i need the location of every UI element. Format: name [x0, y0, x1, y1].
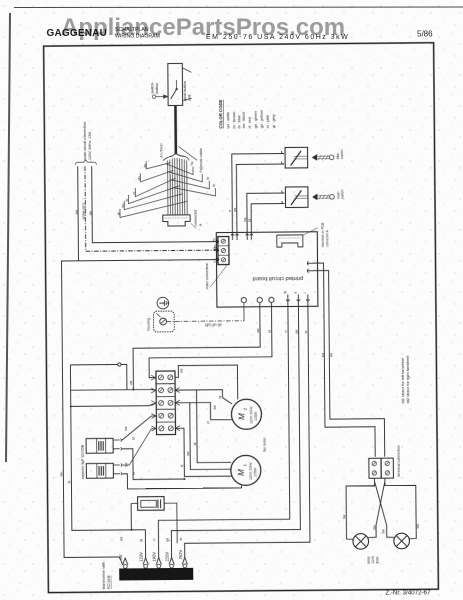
- svg-text:main circuit connection: main circuit connection: [83, 122, 87, 161]
- svg-text:bl: bl: [247, 219, 251, 222]
- svg-text:rt : red: rt : red: [248, 117, 252, 128]
- scanned page edge top line: [14, 6, 463, 9]
- branch row2 to M1 upper: [197, 390, 232, 463]
- wire ws to lamp block: [313, 270, 385, 457]
- svg-text:main: main: [336, 192, 340, 200]
- main connection terminal block on PCB: [218, 237, 229, 265]
- svg-text:M2 Motor for right fanwheel: M2 Motor for right fanwheel: [405, 355, 410, 403]
- wire bl: PCB to strip row2: [149, 302, 273, 377]
- svg-text:sw: sw: [213, 405, 217, 410]
- cable flare brace: [163, 154, 189, 161]
- leader to mounted-on-PCB label: [303, 228, 318, 236]
- svg-text:unit: unit: [188, 94, 192, 101]
- ground wire dash-dot to PCB: [167, 320, 244, 323]
- PCB right hook terminals: [307, 261, 312, 265]
- special cable thick line: [174, 105, 177, 153]
- row1 to M2 top: [175, 365, 238, 400]
- lamp side wire right: [385, 482, 416, 539]
- svg-text:120V, 60Hz: 120V, 60Hz: [249, 462, 253, 480]
- svg-text:ge: ge: [295, 330, 299, 334]
- row3 to M2 lower: [175, 402, 232, 420]
- push button unit box: [168, 63, 183, 105]
- svg-text:switch: switch: [341, 189, 345, 199]
- svg-text:br : brown: br : brown: [232, 112, 236, 129]
- svg-text:bl: bl: [193, 442, 197, 445]
- wire br: PCB to transformer 262V: [183, 301, 311, 558]
- svg-text:sw: sw: [124, 426, 128, 431]
- wire rt: PCB to transformer 190V: [156, 301, 290, 558]
- svg-text:L1: L1: [211, 258, 216, 262]
- RC left vertical join: [131, 503, 145, 558]
- wire sw to lamp block: [313, 263, 376, 458]
- svg-text:main connection: main connection: [205, 263, 209, 289]
- motor M1: [231, 455, 261, 485]
- svg-text:ws : white: ws : white: [226, 112, 230, 129]
- branch row3 to M1 mid: [190, 402, 231, 469]
- svg-text:switch-: switch-: [150, 81, 154, 94]
- svg-text:0V: 0V: [118, 554, 123, 559]
- svg-text:RC-Unit: RC-Unit: [107, 575, 111, 589]
- wires PCB to filter switch: [232, 154, 285, 235]
- svg-text:mounted on PCB: mounted on PCB: [321, 223, 325, 247]
- svg-text:transformer with: transformer with: [102, 562, 106, 589]
- motor M2: [231, 399, 261, 429]
- mains wire sw (L1): [61, 166, 123, 565]
- svg-text:ws: ws: [179, 368, 183, 373]
- svg-text:capacitor 8μF 320VDB: capacitor 8μF 320VDB: [81, 444, 85, 479]
- svg-text:gn : green: gn : green: [254, 111, 258, 128]
- lamp terminal block: [369, 458, 381, 478]
- main connection leader: [210, 265, 228, 288]
- svg-text:filter: filter: [336, 152, 340, 159]
- svg-text:bl: bl: [67, 481, 71, 484]
- push button unit callout lines: [183, 68, 192, 101]
- svg-text:III: III: [283, 291, 287, 294]
- mains wire gn/ge (ground, dash-dot): [85, 165, 218, 251]
- svg-text:105W: 105W: [254, 411, 258, 421]
- switch-button actuator circle and arrow: [152, 95, 155, 98]
- svg-text:ws: ws: [372, 525, 376, 530]
- special cable leader line: [179, 146, 198, 160]
- svg-text:sw: sw: [321, 352, 325, 357]
- PCB top hook terminals: [231, 234, 234, 240]
- row2 to M2 upper: [175, 390, 232, 405]
- wire ws: PCB to strip row1: [133, 303, 261, 390]
- svg-text:ge: ge: [165, 538, 169, 542]
- svg-text:rt: rt: [284, 330, 288, 332]
- svg-text:ws: ws: [416, 524, 420, 529]
- strip screws: [158, 375, 163, 380]
- switch contact inside push button unit: [175, 80, 177, 88]
- mains wire ws (N): [92, 165, 218, 243]
- svg-text:sw: sw: [342, 514, 346, 519]
- connector A (cable end): [163, 215, 190, 226]
- svg-text:N: N: [211, 238, 216, 241]
- svg-text:connector A: connector A: [325, 229, 329, 247]
- svg-text:sw: sw: [243, 217, 247, 222]
- main switch: [285, 187, 308, 208]
- svg-text:sw: sw: [186, 451, 190, 456]
- wire ge: PCB to transformer 220V: [169, 301, 300, 558]
- svg-text:(gn) gn-ge: (gn) gn-ge: [205, 323, 222, 327]
- lamp 2: [394, 533, 410, 549]
- svg-text:rt: rt: [228, 210, 232, 212]
- junction dots: [132, 389, 134, 391]
- wire fan diagonal bl2 (right): [173, 187, 215, 196]
- svg-text:sw: sw: [124, 462, 128, 467]
- svg-text:switch: switch: [340, 149, 344, 159]
- PCB bottom circle terminals: [241, 297, 246, 302]
- svg-text:AppliancePartsPros.com: AppliancePartsPros.com: [61, 14, 345, 41]
- svg-text:lamp: lamp: [367, 556, 371, 564]
- RC unit box: [138, 497, 165, 511]
- transformer terminal V-crimps and stubs: [123, 558, 128, 565]
- svg-text:ge : yellow: ge : yellow: [260, 110, 264, 128]
- svg-text:105W: 105W: [253, 467, 257, 477]
- printed circuit board outline: [216, 232, 318, 307]
- wire fan diagonal ws: [124, 194, 183, 210]
- svg-text:120V: 120V: [371, 555, 375, 564]
- svg-text:sw: sw: [381, 529, 385, 534]
- wire fan diagonal rs: [135, 178, 176, 197]
- svg-text:bl: bl: [268, 330, 272, 333]
- svg-text:push button: push button: [183, 81, 187, 101]
- wire fan diagonal rt (right): [168, 171, 203, 182]
- svg-text:ws: ws: [256, 328, 260, 332]
- strip right exit arrows: [175, 388, 180, 431]
- svg-text:220V: 220V: [165, 552, 170, 562]
- svg-text:gr : grey: gr : grey: [272, 114, 276, 128]
- lamp cross wires: [374, 478, 394, 537]
- housing box: [153, 311, 174, 332]
- cap C1 wires: [122, 416, 156, 440]
- capacitor C1: [86, 438, 113, 453]
- lamp 1: [353, 534, 369, 550]
- svg-text:120V, 60Hz, 15A: 120V, 60Hz, 15A: [88, 131, 92, 160]
- svg-text:special cable: special cable: [199, 148, 203, 170]
- svg-text:M: M: [237, 413, 246, 420]
- svg-text:bl: bl: [218, 396, 222, 399]
- svg-text:ws: ws: [329, 353, 333, 357]
- svg-text:40W: 40W: [376, 556, 380, 564]
- wire fan diagonal bl: [128, 186, 179, 204]
- svg-text:rs : pink: rs : pink: [266, 115, 270, 128]
- svg-text:fan motor: fan motor: [263, 436, 267, 451]
- svg-text:rt: rt: [152, 539, 156, 541]
- terminal strip outline: [156, 371, 176, 435]
- junction dots at main connection: [216, 241, 218, 243]
- svg-text:ws: ws: [129, 380, 133, 384]
- svg-text:ws: ws: [59, 472, 63, 476]
- cap C2 wires: [122, 429, 156, 465]
- svg-text:rt: rt: [206, 421, 210, 423]
- lamp side wire left: [346, 483, 375, 540]
- mains brace: [75, 160, 97, 165]
- wire V2 bl feed down to RC/120V: [70, 364, 131, 530]
- capacitor C2: [86, 463, 113, 478]
- strip left entry arrows: [151, 375, 156, 431]
- wire branch with junction circle: [70, 364, 127, 390]
- wire fan diagonal gn: [140, 170, 173, 181]
- svg-text:120V: 120V: [139, 552, 144, 562]
- svg-text:printed circuit board: printed circuit board: [252, 275, 303, 281]
- svg-text:button: button: [155, 83, 159, 94]
- wire fan diagonal ge: [146, 161, 170, 169]
- wire fan diagonal br (right): [170, 179, 209, 189]
- svg-text:Z.-Nr. 3/4072-67: Z.-Nr. 3/4072-67: [385, 589, 431, 596]
- wire fan diagonal gr: [120, 201, 187, 217]
- svg-text:COLOR CODE: COLOR CODE: [218, 99, 223, 128]
- PCB bottom hook terminals: [286, 294, 289, 301]
- svg-text:II: II: [294, 292, 298, 294]
- svg-text:terminal connection: terminal connection: [397, 445, 401, 476]
- svg-text:ws: ws: [119, 536, 123, 540]
- PCB special cable connector (mounted on pcb): [277, 235, 303, 247]
- row5 to M1 lower: [175, 428, 231, 477]
- wire row3 feed: [71, 403, 156, 406]
- earth symbol in circle: [157, 297, 169, 309]
- RC unit wires: [131, 502, 137, 504]
- svg-text:ws: ws: [233, 207, 237, 211]
- svg-text:A 0,5mm²: A 0,5mm²: [159, 142, 163, 157]
- svg-text:5/86: 5/86: [417, 30, 433, 39]
- svg-text:housing: housing: [147, 318, 151, 331]
- svg-text:I: I: [303, 292, 307, 293]
- transformer body (black bar): [119, 568, 193, 581]
- svg-text:262V: 262V: [178, 549, 183, 559]
- diagram frame: [44, 43, 439, 593]
- svg-text:connector: connector: [194, 209, 198, 226]
- connector label leader: [191, 223, 197, 228]
- special cable wire bundle (9 wires): [167, 161, 169, 216]
- svg-text:bl : blue: bl : blue: [237, 115, 241, 128]
- wire fan diagonal sw (right): [165, 163, 193, 174]
- scanned page edge left line: [6, 13, 10, 462]
- svg-text:bl: bl: [139, 539, 143, 542]
- svg-text:sw : black: sw : black: [242, 112, 246, 129]
- svg-text:M: M: [237, 469, 246, 476]
- svg-text:120V, 60Hz: 120V, 60Hz: [249, 406, 253, 424]
- svg-text:rt: rt: [180, 465, 184, 467]
- wire row2 feed: [71, 389, 156, 391]
- svg-text:190V: 190V: [152, 552, 157, 562]
- wires PCB to main switch: [247, 193, 285, 234]
- filter switch: [285, 147, 308, 168]
- transformer terminals: [123, 565, 127, 569]
